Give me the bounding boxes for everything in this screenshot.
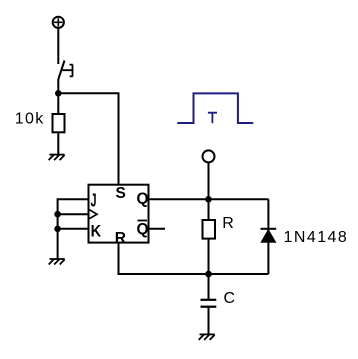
- wire K input: [58, 228, 89, 230]
- svg-text:J: J: [91, 191, 97, 211]
- svg-text:1N4148: 1N4148: [284, 229, 349, 246]
- svg-text:R: R: [115, 230, 126, 247]
- wire capacitor to ground: [208, 307, 210, 335]
- svg-text:R: R: [222, 215, 234, 232]
- ground left rail: [49, 259, 65, 265]
- battery positive terminal: [53, 17, 64, 28]
- wire Q output: [149, 198, 269, 200]
- node bottom junction: [205, 271, 212, 278]
- svg-text:10k: 10k: [15, 111, 45, 128]
- flip-flop U1 (JK) box: [89, 185, 149, 243]
- ground under 10k: [49, 155, 65, 161]
- wire rail to ground: [57, 214, 59, 259]
- pushbutton switch: [58, 61, 72, 80]
- wire J input: [58, 199, 89, 214]
- wire terminal to Q line: [208, 162, 210, 199]
- svg-text:Q: Q: [137, 191, 149, 208]
- node junction A: [55, 90, 62, 97]
- clock input chevron: [89, 210, 97, 219]
- wire diode branch: [267, 199, 269, 274]
- svg-text:C: C: [224, 290, 236, 307]
- ground under capacitor: [199, 334, 215, 340]
- svg-text:Q: Q: [137, 221, 149, 238]
- wire R bottom: [208, 239, 210, 274]
- diode D1 1N4148: [261, 229, 349, 246]
- wire Q-bar stub: [149, 228, 166, 230]
- wire switch to node: [57, 79, 59, 95]
- node K junction: [54, 226, 61, 233]
- wire clock input: [58, 213, 89, 215]
- wire R output of flip-flop: [119, 243, 269, 274]
- resistor 10k: [15, 93, 65, 132]
- node clk junction: [54, 211, 61, 218]
- wire battery to switch: [57, 28, 59, 64]
- capacitor C: [201, 274, 236, 307]
- svg-text:S: S: [116, 185, 126, 202]
- wire node to S input: [58, 93, 118, 184]
- resistor R: [203, 199, 234, 238]
- wire resistor to ground: [57, 132, 59, 154]
- svg-text:K: K: [91, 222, 102, 241]
- output terminal: [203, 150, 215, 162]
- pulse waveform T: [177, 93, 253, 123]
- node Q junction: [205, 196, 212, 203]
